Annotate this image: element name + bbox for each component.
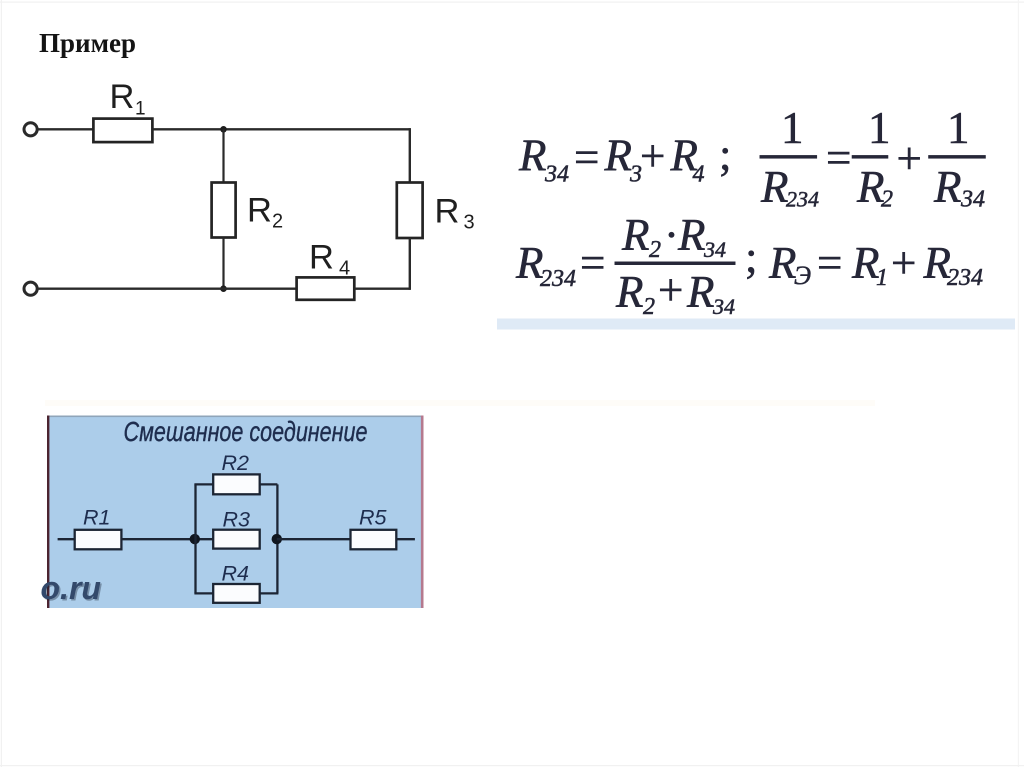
svg-text:2: 2 <box>272 211 283 233</box>
node A junction dot <box>220 126 227 133</box>
svg-text:Смешанное соединение: Смешанное соединение <box>124 416 368 447</box>
svg-text:;: ; <box>745 232 758 282</box>
svg-text:1: 1 <box>868 103 891 153</box>
svg-text:34: 34 <box>712 294 735 319</box>
svg-text:4: 4 <box>693 162 705 188</box>
formula underline band <box>497 319 1015 330</box>
resistor R1 <box>93 119 152 143</box>
svg-text:R: R <box>309 239 334 277</box>
svg-text:R: R <box>604 131 633 181</box>
svg-text:R3: R3 <box>223 507 251 531</box>
wire bottom branch right <box>260 592 279 594</box>
svg-text:Пример: Пример <box>39 28 136 58</box>
svg-text:234: 234 <box>786 187 819 212</box>
svg-text:3: 3 <box>464 212 475 234</box>
svg-text:2: 2 <box>649 237 661 263</box>
svg-text:R: R <box>435 193 460 231</box>
svg-text:Э: Э <box>794 261 811 290</box>
svg-text:R: R <box>621 210 650 260</box>
formula 1/R234 = 1/R2 + 1/R34 <box>760 103 986 213</box>
resistor R4 (panel) <box>213 584 260 603</box>
svg-text:=: = <box>817 238 842 288</box>
svg-text:+: + <box>640 131 665 181</box>
label R4 (panel) <box>222 562 250 586</box>
wire top branch right <box>260 483 278 485</box>
svg-text:2: 2 <box>643 294 655 320</box>
resistor R3 (panel) <box>213 530 260 549</box>
svg-text:1: 1 <box>135 99 146 120</box>
label R2 <box>247 192 283 233</box>
resistor R2 (panel) <box>213 474 260 494</box>
watermark o.ru <box>41 570 103 608</box>
svg-text:+: + <box>658 265 683 315</box>
wire left branch vertical <box>194 484 196 593</box>
wire R4 to bottom-right corner <box>354 288 410 290</box>
svg-text:R: R <box>615 267 644 317</box>
wire top branch left <box>194 483 213 485</box>
label R1 (panel) <box>83 506 110 530</box>
resistor R5 (panel) <box>351 530 397 550</box>
svg-text:1: 1 <box>876 265 888 291</box>
svg-text:R: R <box>933 162 962 212</box>
svg-text:1: 1 <box>781 103 804 153</box>
panel left red border <box>47 416 49 609</box>
panel right red border <box>421 416 424 609</box>
svg-text:R: R <box>768 238 797 288</box>
svg-text:R: R <box>247 192 272 230</box>
svg-text:R: R <box>110 78 135 116</box>
svg-text:R5: R5 <box>359 506 388 530</box>
formula R234 = R2*R34 / (R2+R34) <box>515 210 758 320</box>
svg-text:=: = <box>574 133 599 183</box>
wire node D to R5 <box>277 538 351 540</box>
svg-text:1: 1 <box>947 103 970 153</box>
svg-text:;: ; <box>719 130 732 180</box>
wire T2 to node B and on to R4 <box>38 288 297 290</box>
svg-text:+: + <box>891 238 916 288</box>
wire T1 to R1 <box>38 128 94 130</box>
svg-text:·: · <box>664 210 679 260</box>
label R3 <box>435 193 475 234</box>
wire R3 bottom to bottom-right corner <box>409 238 411 290</box>
terminal T1 (top left input) <box>24 123 37 136</box>
label R5 (panel) <box>359 506 388 530</box>
node B junction dot <box>220 285 227 292</box>
resistor R3 <box>397 183 423 239</box>
svg-text:o.ru: o.ru <box>41 570 101 606</box>
faint strip above panel <box>45 400 875 406</box>
wire node A down to R2 <box>222 129 224 183</box>
wire bottom branch left <box>194 592 213 594</box>
wire R1 to node C <box>121 538 213 540</box>
node D junction dot <box>272 534 282 544</box>
wire main line left stub <box>58 538 75 540</box>
svg-text:=: = <box>826 133 851 183</box>
svg-text:2: 2 <box>881 187 893 213</box>
svg-text:R: R <box>686 267 715 317</box>
wire R5 to right stub <box>396 538 415 540</box>
svg-text:=: = <box>580 238 605 288</box>
svg-text:34: 34 <box>960 187 985 213</box>
svg-text:234: 234 <box>540 266 576 292</box>
formula RЭ = R1 + R234 <box>768 238 983 291</box>
svg-text:234: 234 <box>947 265 983 291</box>
svg-text:34: 34 <box>544 162 569 188</box>
wire right branch vertical <box>276 484 278 593</box>
svg-text:R: R <box>760 162 789 212</box>
svg-text:R: R <box>518 131 547 181</box>
label R1 <box>110 78 146 120</box>
panel background (Смешанное соединение) <box>48 416 424 609</box>
svg-text:4: 4 <box>339 258 350 280</box>
svg-text:R: R <box>677 210 706 260</box>
wire R2 bottom to node B <box>222 238 224 289</box>
formula R34 = R3 + R4 <box>518 130 732 188</box>
wire R1 to node A and on to top-right corner <box>152 128 409 130</box>
svg-text:+: + <box>897 134 922 184</box>
resistor R4 <box>297 277 355 299</box>
svg-text:R1: R1 <box>83 506 110 530</box>
slide title Пример <box>39 28 136 58</box>
node C junction dot <box>190 534 200 544</box>
resistor R2 <box>212 183 236 238</box>
label R2 (panel) <box>222 451 250 475</box>
panel title Смешанное соединение <box>124 416 368 447</box>
svg-text:R4: R4 <box>222 562 250 586</box>
label R4 <box>309 239 350 280</box>
terminal T2 (bottom left input) <box>24 282 37 295</box>
wire top-right corner down to R3 <box>409 128 411 183</box>
svg-text:R2: R2 <box>222 451 250 475</box>
svg-text:34: 34 <box>703 237 726 262</box>
label R3 (panel) <box>223 507 251 531</box>
resistor R1 (panel) <box>75 530 122 550</box>
